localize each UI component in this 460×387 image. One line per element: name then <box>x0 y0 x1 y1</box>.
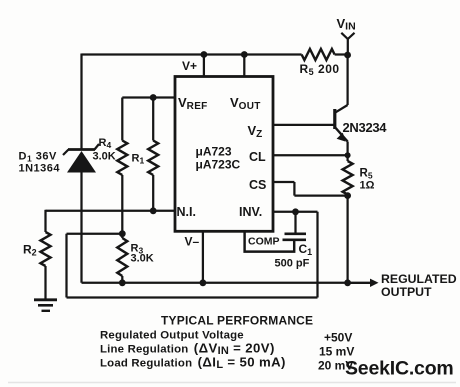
svg-text:500 pF: 500 pF <box>275 258 310 270</box>
pin label INV. <box>239 205 262 219</box>
label R1 <box>132 153 145 166</box>
svg-text:1Ω: 1Ω <box>360 180 375 192</box>
resistor R5 (200 ohm, series input) <box>302 49 335 60</box>
wire N.I. pin <box>46 210 176 212</box>
svg-text:Regulated Output Voltage: Regulated Output Voltage <box>100 330 244 342</box>
junction output node <box>344 279 351 286</box>
capacitor C1 500pF <box>283 234 307 240</box>
svg-text:15 mV: 15 mV <box>319 345 354 359</box>
wire V- bus (horizontal bottom bus A) <box>82 282 348 284</box>
svg-text:R5 200: R5 200 <box>300 62 340 77</box>
svg-text:CL: CL <box>249 150 266 164</box>
wire INV pin to feedback bus <box>273 212 318 298</box>
resistor R1 <box>148 98 158 211</box>
table row 1: Regulated Output Voltage +50V <box>100 330 352 345</box>
svg-text:TYPICAL PERFORMANCE: TYPICAL PERFORMANCE <box>161 314 313 328</box>
label R3 <box>131 243 144 256</box>
resistor R4 3.0K <box>117 98 127 234</box>
svg-text:V+: V+ <box>182 59 197 73</box>
label R5 200 <box>300 62 340 77</box>
zener diode D1 1N1364 36V <box>63 144 99 173</box>
svg-text:VZ: VZ <box>248 123 263 140</box>
node VIN terminal <box>341 33 354 55</box>
junction INV/C1 <box>292 208 299 215</box>
transistor Q1 2N3234 base bar <box>333 109 336 129</box>
junction VIN/top-rail <box>344 52 351 59</box>
junction CS/R5 bottom <box>344 192 351 199</box>
wire V- stub down to V- bus <box>202 231 204 282</box>
label uA723 / uA723C <box>196 145 241 172</box>
svg-text:N.I.: N.I. <box>177 205 196 219</box>
label V- <box>185 235 200 249</box>
wire VREF pin <box>122 96 175 98</box>
svg-text:+50V: +50V <box>324 331 352 345</box>
pin label CL <box>249 150 266 164</box>
svg-text:COMP: COMP <box>248 236 280 248</box>
ground <box>34 300 57 311</box>
label 1N1364 <box>19 163 61 175</box>
junction VREF/R1 <box>150 94 157 101</box>
wire zener branch from top rail <box>80 54 82 150</box>
svg-text:INV.: INV. <box>239 205 262 219</box>
transistor emitter with arrow <box>335 127 348 142</box>
label R5 (sense) <box>360 168 373 181</box>
wire collector from VIN node <box>335 55 348 113</box>
resistor R5 (1 ohm sense) <box>343 161 353 195</box>
bottom rule <box>8 382 456 384</box>
wire C1 top stub <box>294 212 296 234</box>
wire V+ stub <box>203 55 205 77</box>
table row 2: Line Regulation 15 mV <box>100 341 354 359</box>
svg-text:REGULATED: REGULATED <box>381 272 457 286</box>
svg-text:R4: R4 <box>99 137 112 150</box>
junction R4/R3/feedback <box>119 230 126 237</box>
svg-text:3.0K: 3.0K <box>131 253 154 265</box>
pin label COMP <box>248 236 280 248</box>
label C1 <box>299 242 313 257</box>
pin label N.I. <box>177 205 196 219</box>
pin label CS <box>249 178 266 192</box>
svg-text:V–: V– <box>185 235 200 249</box>
junction CL/emitter <box>345 152 351 158</box>
svg-text:VOUT: VOUT <box>230 95 261 112</box>
svg-text:OUTPUT: OUTPUT <box>381 285 432 299</box>
wire feedback bus B <box>67 296 318 298</box>
wire base from VZ pin <box>273 124 335 126</box>
junction V- stub/bus <box>200 279 207 286</box>
wire R4/R3 junction horizontal <box>67 233 123 235</box>
label TYPICAL PERFORMANCE <box>161 314 313 328</box>
op-amp U1 uA723 regulator IC box <box>175 77 273 232</box>
label 500 pF <box>275 258 310 270</box>
svg-text:VIN: VIN <box>337 16 356 33</box>
wire output arrow <box>348 279 379 287</box>
table row 3: Load Regulation 20 mV <box>100 355 353 373</box>
pin label VOUT <box>230 95 261 112</box>
label D1 36V <box>19 151 57 164</box>
wire Vc stub <box>243 55 245 77</box>
COMP pin box <box>245 231 295 251</box>
wire zener anode down to V- bus <box>80 173 82 283</box>
label 1 ohm <box>360 180 375 192</box>
svg-text:1N1364: 1N1364 <box>19 163 61 175</box>
pin label VZ <box>248 123 263 140</box>
wire emitter down <box>346 142 348 162</box>
label VIN <box>337 16 356 33</box>
junction R1/N.I. <box>150 207 157 214</box>
svg-text:μA723C: μA723C <box>196 158 241 172</box>
junction R3/V- bus <box>119 279 126 286</box>
wire CL pin to emitter <box>273 154 348 156</box>
svg-text:SeekIC.com: SeekIC.com <box>345 358 454 380</box>
wire sense resistor to output node <box>346 196 348 283</box>
junction V+ stub/top rail <box>201 51 208 58</box>
svg-text:R1: R1 <box>132 153 145 166</box>
svg-text:μA723: μA723 <box>196 145 232 159</box>
wire CS pin to sense resistor bottom <box>273 182 348 196</box>
pin label VREF <box>178 95 208 112</box>
svg-text:R2: R2 <box>23 243 37 258</box>
label 3.0K (R3) <box>131 253 154 265</box>
label 2N3234 <box>343 120 388 135</box>
svg-text:3.0K: 3.0K <box>93 151 116 163</box>
svg-text:C1: C1 <box>299 242 313 257</box>
svg-text:Load Regulation (ΔIL = 50 mA): Load Regulation (ΔIL = 50 mA) <box>100 355 286 372</box>
label REGULATED OUTPUT <box>381 272 457 299</box>
label 3.0K (R4) <box>93 151 116 163</box>
label R2 <box>23 243 37 258</box>
resistor R3 3.0K <box>117 234 127 283</box>
label R4 <box>99 137 112 150</box>
watermark SeekIC.com <box>345 358 454 380</box>
junction Vc stub/top rail <box>241 51 248 58</box>
svg-text:VREF: VREF <box>178 95 208 112</box>
svg-text:CS: CS <box>249 178 266 192</box>
wire top rail V+ <box>82 53 348 55</box>
wire riser left of bus B <box>65 234 67 298</box>
label V+ <box>182 59 197 73</box>
svg-text:2N3234: 2N3234 <box>343 120 388 135</box>
resistor R2 <box>41 210 51 299</box>
